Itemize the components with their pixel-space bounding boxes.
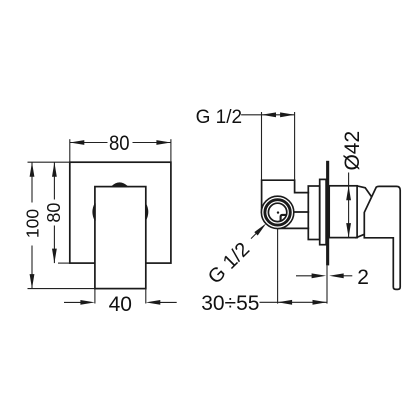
svg-text:80: 80 bbox=[109, 132, 130, 155]
svg-text:2: 2 bbox=[357, 266, 369, 289]
G1/2 port keyway notch bbox=[281, 215, 287, 221]
dim 80 left: dimension line segments bbox=[53, 162, 55, 199]
dim 30÷55: arrowheads bbox=[278, 300, 293, 305]
side view: valve body outline bbox=[262, 180, 309, 212]
dim 100 left: extension line top bbox=[28, 161, 70, 163]
dim 100 left: dimension line segments bbox=[31, 162, 33, 202]
svg-text:80: 80 bbox=[44, 203, 64, 223]
svg-text:Ø42: Ø42 bbox=[341, 131, 364, 171]
escutcheon flange bbox=[320, 179, 326, 244]
G1/2 port outer circle bbox=[261, 196, 293, 228]
dim 80 top: extension lines bbox=[69, 139, 71, 162]
handle left side bulge arc bbox=[93, 203, 95, 220]
dim 80 left: arrowheads bbox=[52, 162, 57, 177]
dim 40 bottom: left arrow with shaft bbox=[64, 301, 81, 303]
handle lever outline bbox=[364, 186, 400, 289]
svg-text:G 1/2: G 1/2 bbox=[196, 107, 242, 128]
dim 80 left: extension line bottom bbox=[58, 262, 70, 264]
svg-text:100: 100 bbox=[23, 209, 43, 238]
dim 100 left: extension line bottom bbox=[28, 288, 95, 290]
wall plate edge-on (2mm) bbox=[326, 161, 329, 266]
svg-text:40: 40 bbox=[109, 293, 132, 316]
dim 30÷55: line from label bbox=[260, 301, 278, 303]
G1/2 port thick thread ring bbox=[265, 200, 290, 225]
dim 30÷55: extension line from plate bbox=[326, 265, 328, 303]
dim G1/2 top: extension lines bbox=[261, 112, 263, 180]
handle cone bottom edge bbox=[356, 235, 363, 238]
dim 2: right arrow with shaft bbox=[343, 275, 352, 277]
front view: handle body rectangle bbox=[95, 187, 146, 289]
dim G1/2 top: leader line bbox=[241, 114, 261, 116]
handle right side bulge arc bbox=[146, 203, 148, 220]
dim 40 bottom: right arrow with shaft bbox=[160, 301, 177, 303]
cartridge sleeve Ø42 bbox=[329, 186, 357, 238]
dim 80 top: dimension line segments bbox=[70, 142, 108, 144]
leader G1/2 bottom: arrowhead bbox=[254, 223, 266, 235]
dim 100 left: arrowheads bbox=[30, 162, 35, 177]
dim 30÷55: extension line from port centre bbox=[277, 228, 279, 303]
front view: wall plate square 80x80 bbox=[70, 162, 171, 263]
dim 80 top: arrowheads bbox=[70, 140, 85, 145]
dim G1/2 top: dimension line bbox=[262, 114, 295, 116]
svg-text:30÷55: 30÷55 bbox=[201, 292, 259, 315]
side view: body bottom tangent line bbox=[278, 227, 309, 229]
leader G1/2 bottom: leader line bbox=[251, 226, 264, 239]
dim 2: left arrow with shaft bbox=[296, 275, 312, 277]
dim G1/2 top: arrowheads bbox=[262, 112, 277, 117]
dim 40 bottom: extension stubs bbox=[94, 289, 96, 304]
side view: body mid line at port centre bbox=[294, 211, 309, 213]
dim Ø42: dimension line bbox=[348, 173, 350, 238]
dim 30÷55: dimension line bbox=[278, 301, 327, 303]
cartridge housing block bbox=[308, 186, 319, 240]
G1/2 port centre dot bbox=[277, 211, 279, 213]
G1/2 port inner circle bbox=[268, 203, 286, 221]
dim Ø42: arrowheads bbox=[346, 186, 351, 201]
handle cone top edge bbox=[357, 186, 371, 196]
handle top neck arc bbox=[111, 183, 127, 187]
